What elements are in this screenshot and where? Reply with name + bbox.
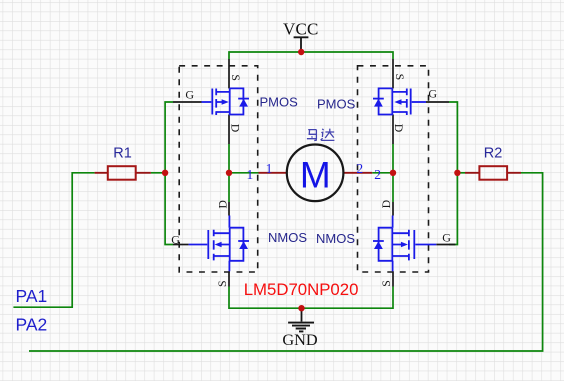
pin S (left NMOS): [228, 271, 230, 286]
pin 1 (motor left): [259, 172, 287, 174]
junction node right output: [390, 170, 396, 176]
svg-text:GND: GND: [282, 330, 318, 349]
wire VCC top rail: [229, 52, 393, 59]
wire R1 to gate bus junction: [151, 172, 165, 174]
svg-text:G: G: [428, 86, 437, 100]
resistor R1: [95, 145, 151, 179]
wire PA2 net: label to R2: [29, 173, 543, 351]
svg-text:1: 1: [247, 167, 254, 182]
label 马达 (drawn glyphs): [307, 129, 335, 141]
pin D (left PMOS): [228, 115, 230, 145]
pin D (right PMOS): [392, 115, 394, 145]
wire right gate bus vertical: [449, 102, 457, 245]
svg-text:D: D: [228, 124, 242, 133]
svg-text:2: 2: [356, 161, 363, 176]
svg-text:S: S: [229, 74, 243, 81]
transistor Q1 left PMOS: [173, 59, 249, 144]
svg-text:PA2: PA2: [16, 314, 48, 334]
transistor Q2 left NMOS: [171, 200, 249, 287]
motor circle: [287, 145, 344, 202]
svg-text:S: S: [393, 74, 407, 81]
svg-text:D: D: [379, 199, 393, 208]
wire R2 left lead to gate bus: [457, 172, 465, 174]
pin S (left PMOS): [228, 59, 230, 88]
svg-text:D: D: [392, 124, 406, 133]
svg-text:1: 1: [266, 161, 273, 176]
svg-text:D: D: [215, 200, 229, 209]
svg-text:M: M: [300, 154, 331, 195]
svg-text:VCC: VCC: [283, 20, 319, 39]
ground GND: [282, 308, 318, 349]
wire left gate bus vertical: [165, 102, 173, 245]
transistor Q3 right PMOS (mirrored): [373, 59, 449, 144]
power port VCC: [283, 20, 319, 53]
svg-text:NMOS: NMOS: [316, 231, 355, 246]
svg-text:R1: R1: [113, 145, 132, 161]
svg-text:PMOS: PMOS: [260, 94, 299, 109]
pin 2 (motor right): [343, 172, 372, 174]
svg-text:2: 2: [374, 167, 381, 182]
svg-text:G: G: [442, 231, 451, 245]
pin G (right NMOS): [436, 244, 455, 246]
pin D (right NMOS): [392, 202, 394, 216]
junction node GND: [298, 305, 304, 311]
svg-text:PMOS: PMOS: [317, 96, 356, 111]
junction node left output: [226, 170, 232, 176]
pin G (left NMOS): [173, 244, 189, 246]
dashed package box left: [179, 66, 258, 272]
transistor Q4 right NMOS (mirrored): [373, 199, 455, 286]
svg-text:LM5D70NP020: LM5D70NP020: [244, 280, 359, 299]
svg-text:G: G: [185, 87, 194, 101]
pin G (left PMOS): [173, 101, 202, 103]
junction node R2/gates: [454, 170, 460, 176]
junction node R1/gates: [162, 170, 168, 176]
pin D (left NMOS): [228, 202, 230, 216]
wire bottom source rail to GND: [229, 287, 393, 309]
resistor R2: [465, 145, 521, 179]
svg-text:R2: R2: [484, 145, 503, 161]
pin G (right PMOS): [426, 101, 449, 103]
wire left half-bridge output: [229, 144, 259, 202]
svg-text:S: S: [215, 280, 229, 287]
junction node top VCC: [298, 49, 304, 55]
dashed package box right: [358, 66, 429, 272]
svg-text:PA1: PA1: [16, 286, 48, 306]
motor M (马达): [259, 129, 373, 202]
svg-text:S: S: [379, 280, 393, 287]
pin S (right PMOS): [392, 59, 394, 88]
pin S (right NMOS): [392, 271, 394, 286]
svg-text:NMOS: NMOS: [268, 230, 307, 245]
svg-text:G: G: [171, 233, 180, 247]
wire right half-bridge output: [372, 144, 393, 202]
wire PA1 net: label to R1: [13, 173, 94, 307]
